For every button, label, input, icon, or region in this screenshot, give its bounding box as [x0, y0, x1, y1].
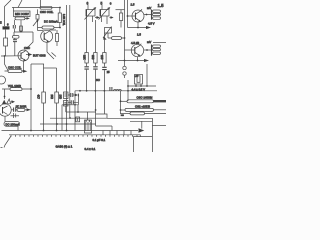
- wire base feed Q1: [38, 30, 44, 32]
- terminal mark left edge: [0, 21, 2, 24]
- wire rail 32: [14, 31, 33, 33]
- wire emitter down: [137, 57, 139, 61]
- tick marks: [14, 113, 16, 118]
- wire: [56, 30, 58, 46]
- tuning capacitor section C3a: [85, 7, 97, 19]
- svg-text:4.5 V: 4.5 V: [148, 22, 155, 26]
- node junction: [20, 31, 22, 33]
- comb ticks: [11, 135, 133, 137]
- wire: [127, 80, 129, 101]
- wire rail 91: [75, 90, 157, 92]
- node junction: [140, 85, 142, 87]
- wire det out: [62, 104, 78, 106]
- diode D1: [75, 94, 78, 97]
- transistor Q5 circle: [0, 104, 11, 116]
- svg-text:1.5: 1.5: [131, 3, 135, 7]
- node junction: [104, 90, 106, 92]
- wire from R2 to node: [20, 20, 22, 32]
- transistor Q4 collector: [135, 44, 142, 49]
- svg-text:1.5: 1.5: [158, 3, 165, 8]
- resistor R1 vertical box: [4, 38, 8, 46]
- capacitor C8 bars: [13, 40, 17, 42]
- transistor Q1 collector: [44, 30, 56, 34]
- transistor Q2 circle: [18, 50, 29, 61]
- wire rail 126: [96, 125, 112, 127]
- if sub box 2: [64, 101, 69, 107]
- resistor R12 vertical: [103, 53, 106, 64]
- arrow right of cluster: [10, 101, 13, 103]
- capacitor C7: [102, 63, 107, 91]
- wire long vertical x31: [30, 64, 32, 131]
- resistor R6 vertical right of Q1: [56, 34, 59, 42]
- transistor Q2 emitter with arrow: [21, 58, 25, 61]
- resistor R4 pill: [38, 26, 61, 29]
- trimmer arrow: [33, 21, 37, 26]
- capacitor C2 box: [36, 15, 39, 20]
- wire col3: [103, 33, 105, 53]
- wire: [4, 89, 6, 99]
- wire long vertical right A: [124, 0, 126, 61]
- wire: [56, 103, 58, 131]
- resistor R3 pill on rail: [40, 6, 52, 9]
- capacitor C10 bars: [14, 108, 16, 112]
- wire vertical: [146, 64, 148, 86]
- wire long vertical bus A: [66, 5, 68, 131]
- capacitor C5: [84, 63, 89, 91]
- wire stub to label box: [13, 8, 15, 12]
- inductor L1 pill with thick lead: [121, 100, 167, 103]
- if sub box 1: [64, 92, 69, 99]
- wire: [13, 32, 15, 36]
- wire rail 68: [44, 67, 57, 69]
- transistor Q1 circle: [41, 30, 53, 42]
- resistor R15 pill: [2, 88, 31, 91]
- node junction: [120, 109, 122, 111]
- wire col2: [94, 20, 96, 53]
- wire vertical from top: [40, 0, 42, 7]
- resistor R8 pill horizontal: [108, 37, 125, 40]
- transistor Q3 emitter with arrow: [136, 18, 140, 21]
- node junction: [120, 100, 122, 102]
- label box: [14, 11, 31, 17]
- arrow between sections: [95, 17, 97, 19]
- svg-text:OSC 140HM: OSC 140HM: [137, 96, 154, 100]
- transistor Q2 base bar: [20, 52, 22, 58]
- bus rail 124: [40, 123, 96, 125]
- svg-text:OSC COIL: OSC COIL: [40, 10, 54, 14]
- wire: [43, 103, 45, 131]
- wire long vertical bus B: [69, 5, 71, 118]
- wire rail 112: [66, 111, 96, 113]
- wire: [111, 126, 113, 131]
- wire right rail A: [107, 118, 152, 152]
- wire x56.5 upper: [56, 68, 58, 92]
- wire right lower rail: [152, 125, 166, 127]
- wire emitter down: [46, 42, 48, 52]
- wire: [14, 29, 16, 33]
- node junction: [137, 27, 139, 29]
- wire antenna lead diagonal 1: [5, 0, 12, 26]
- wire det row: [68, 94, 75, 96]
- svg-text:OS2 +10DB: OS2 +10DB: [135, 105, 150, 109]
- ferrite bead pill row3: [121, 112, 167, 115]
- wire section2 leads: [102, 16, 108, 24]
- resistor R5 vertical: [58, 13, 61, 23]
- node junction: [135, 85, 137, 87]
- node junction: [69, 117, 71, 119]
- wire: [95, 91, 97, 126]
- node junction: [127, 15, 129, 17]
- wire base feed Q3: [128, 15, 136, 17]
- wire to connector J1: [144, 14, 152, 16]
- tuning capacitor section C3b: [99, 7, 111, 19]
- capacitor C6: [93, 63, 98, 91]
- arrow right of section 2: [110, 17, 111, 19]
- resistor R13 vertical: [42, 92, 46, 103]
- svg-text:2K2: 2K2: [50, 95, 53, 100]
- C3a left plate: [85, 10, 87, 17]
- node junction: [146, 85, 148, 87]
- comb ticks right: [137, 135, 140, 137]
- wire: [4, 116, 6, 121]
- wire vertical: [120, 91, 122, 114]
- wire: [74, 91, 76, 131]
- wire emitter down: [23, 61, 25, 71]
- node junction: [79, 90, 81, 92]
- svg-text:25: 25: [107, 71, 110, 74]
- wire stub: [107, 33, 109, 38]
- svg-text:DC 100mA: DC 100mA: [6, 123, 20, 127]
- capacitor C13 row2: [68, 100, 78, 104]
- svg-text:4K7: 4K7: [37, 95, 40, 100]
- wire: [59, 23, 61, 28]
- wire: [61, 105, 63, 131]
- regulator cluster box: [135, 75, 143, 85]
- node junction: [146, 14, 148, 16]
- wire: [77, 105, 79, 112]
- resistor R10 vertical: [85, 53, 88, 64]
- wire stub cluster2: [87, 112, 89, 120]
- node junction: [30, 88, 32, 90]
- node junction: [77, 111, 79, 113]
- transistor Q3 collector: [136, 9, 143, 14]
- diode pair cluster: [2, 99, 11, 104]
- resistor R11 vertical: [94, 53, 97, 64]
- wire base feed Q2: [1, 55, 21, 57]
- wire: [124, 61, 126, 79]
- wire: [103, 91, 105, 114]
- wire emitter row with arrow: [128, 27, 147, 29]
- capacitor C11 bars: [71, 93, 73, 97]
- wire: [14, 20, 16, 25]
- wire emitter row 2 with arrow: [118, 60, 144, 62]
- node junction: [127, 90, 129, 92]
- transistor Q1 base bar: [43, 33, 45, 40]
- resistor R16 pill with arrow: [11, 108, 31, 111]
- wire: [14, 38, 16, 56]
- svg-text:OSC COIL: OSC COIL: [8, 66, 22, 70]
- node junction: [59, 7, 61, 9]
- capacitor C1 bars: [13, 25, 15, 29]
- wire output right: [153, 42, 166, 44]
- node junction: [137, 60, 139, 62]
- wire: [77, 95, 79, 105]
- node junction: [74, 104, 76, 106]
- svg-text:OSC: OSC: [24, 46, 30, 50]
- wire stub arrow feed: [141, 121, 143, 128]
- wire base feed Q4: [125, 49, 135, 51]
- node junction: [127, 85, 129, 87]
- bus rail 118: [50, 117, 107, 119]
- tuning capacitor section C3c: [103, 27, 112, 40]
- text marks bottom left: [1, 147, 3, 149]
- svg-text:SC: SC: [96, 78, 100, 82]
- small box cluster 2: [85, 120, 92, 133]
- wire long vertical right B: [127, 0, 129, 28]
- resistor R7 pill with arrow: [5, 70, 28, 73]
- resistor R9 vertical: [120, 13, 123, 21]
- node junction: [56, 130, 58, 132]
- node junction: [124, 60, 126, 62]
- wire: [37, 9, 39, 30]
- node junction: [56, 123, 58, 125]
- wire antenna lead diagonal 2: [18, 0, 22, 8]
- node junction: [124, 37, 126, 39]
- speaker box bottom right: [134, 137, 153, 153]
- svg-text:BUT 0008: BUT 0008: [33, 54, 46, 58]
- node junction: [30, 130, 32, 132]
- resistor R17 pill: [13, 36, 20, 39]
- wire: [5, 46, 7, 56]
- wire: [17, 126, 19, 130]
- transistor Q3 circle: [132, 10, 144, 22]
- node junction: [23, 70, 25, 72]
- svg-text:MIX CONV: MIX CONV: [15, 12, 29, 16]
- transistor Q2 collector: [21, 51, 25, 54]
- wire right rail B: [130, 120, 152, 122]
- node junction: [146, 49, 148, 51]
- wire: [11, 115, 20, 117]
- inductor L2 pill: [121, 108, 167, 111]
- small box cluster 1b: [76, 117, 80, 122]
- meter label box DC 100mA: [4, 122, 20, 127]
- wire staircase right: [96, 114, 107, 118]
- ground bus main: [2, 130, 139, 132]
- node junction: [4, 55, 6, 57]
- svg-text:6: 6: [7, 22, 9, 26]
- emitter branch diagonals: [47, 52, 54, 59]
- svg-text:GAIN (4) ± 1: GAIN (4) ± 1: [56, 145, 73, 149]
- transistor Q3 base bar: [135, 13, 137, 20]
- node junction: [43, 130, 45, 132]
- resistor R2 horizontal pill with arrow: [15, 17, 30, 20]
- svg-text:0.1 µF 0.1: 0.1 µF 0.1: [93, 138, 106, 142]
- node junction: [66, 123, 68, 125]
- transistor Q4 base bar: [134, 47, 136, 54]
- svg-text:0.4 ± 0.1: 0.4 ± 0.1: [85, 147, 96, 151]
- bus end arrow: [139, 128, 145, 133]
- svg-text:mV: mV: [147, 6, 151, 10]
- capacitor C9 bars on rail: [110, 87, 112, 91]
- node junction: [95, 109, 97, 111]
- wire: [120, 10, 122, 28]
- connector J1 three prong: [152, 10, 161, 20]
- wire link: [116, 9, 125, 11]
- node junction: [59, 27, 61, 29]
- svg-text:3.3K COIL: 3.3K COIL: [62, 14, 65, 26]
- wire section1 leads: [87, 16, 93, 53]
- transistor Q4 emitter with arrow: [135, 52, 139, 55]
- wire collector drop Q2: [26, 32, 33, 49]
- node junction: [4, 96, 6, 98]
- comb ground line: [9, 134, 141, 136]
- wire emitter down: [137, 22, 139, 28]
- svg-text:1K 100R: 1K 100R: [16, 104, 27, 108]
- svg-text:DC 100mA: DC 100mA: [44, 19, 58, 23]
- inductor L3 humps: [114, 90, 122, 91]
- wire cluster legs: [136, 84, 141, 86]
- arrow node with text: [26, 54, 28, 56]
- wire to connector J2: [144, 49, 152, 51]
- capacitor C12 small box: [20, 26, 23, 31]
- connector J2 three prong: [152, 45, 161, 56]
- C3b left plate: [99, 10, 101, 17]
- svg-text:1.5: 1.5: [137, 32, 141, 36]
- transformer arc T2: [0, 76, 6, 84]
- box route left: [31, 63, 44, 65]
- wire stub above C3b: [101, 5, 103, 10]
- pointer diagonal bottom left: [4, 136, 11, 148]
- wire stub left: [5, 56, 9, 71]
- node junction: [66, 130, 68, 132]
- bus to comb ticks: [103, 131, 131, 135]
- svg-text:≡≡: ≡≡: [121, 114, 124, 117]
- wire x43.5 upper: [43, 64, 45, 92]
- svg-text:1K0: 1K0: [59, 95, 62, 100]
- resistor R14 vertical: [55, 92, 59, 103]
- svg-text:mV: mV: [147, 40, 151, 44]
- wire rail 86: [128, 85, 156, 87]
- wire: [59, 8, 61, 14]
- node junction: [86, 90, 88, 92]
- wire: [5, 30, 7, 38]
- transistor Q5 internals: [2, 107, 4, 114]
- transistor Q1 emitter with arrow: [44, 38, 48, 41]
- svg-text:c: c: [110, 2, 112, 6]
- transistor Q4 circle: [131, 44, 143, 56]
- wire top rail: [12, 7, 60, 9]
- wire stub: [65, 106, 67, 112]
- wire stub above C3a: [87, 5, 89, 10]
- node junction: [95, 90, 97, 92]
- electrolytic C4 circles: [123, 66, 126, 69]
- transformer core T1 dark bar: [3, 26, 10, 29]
